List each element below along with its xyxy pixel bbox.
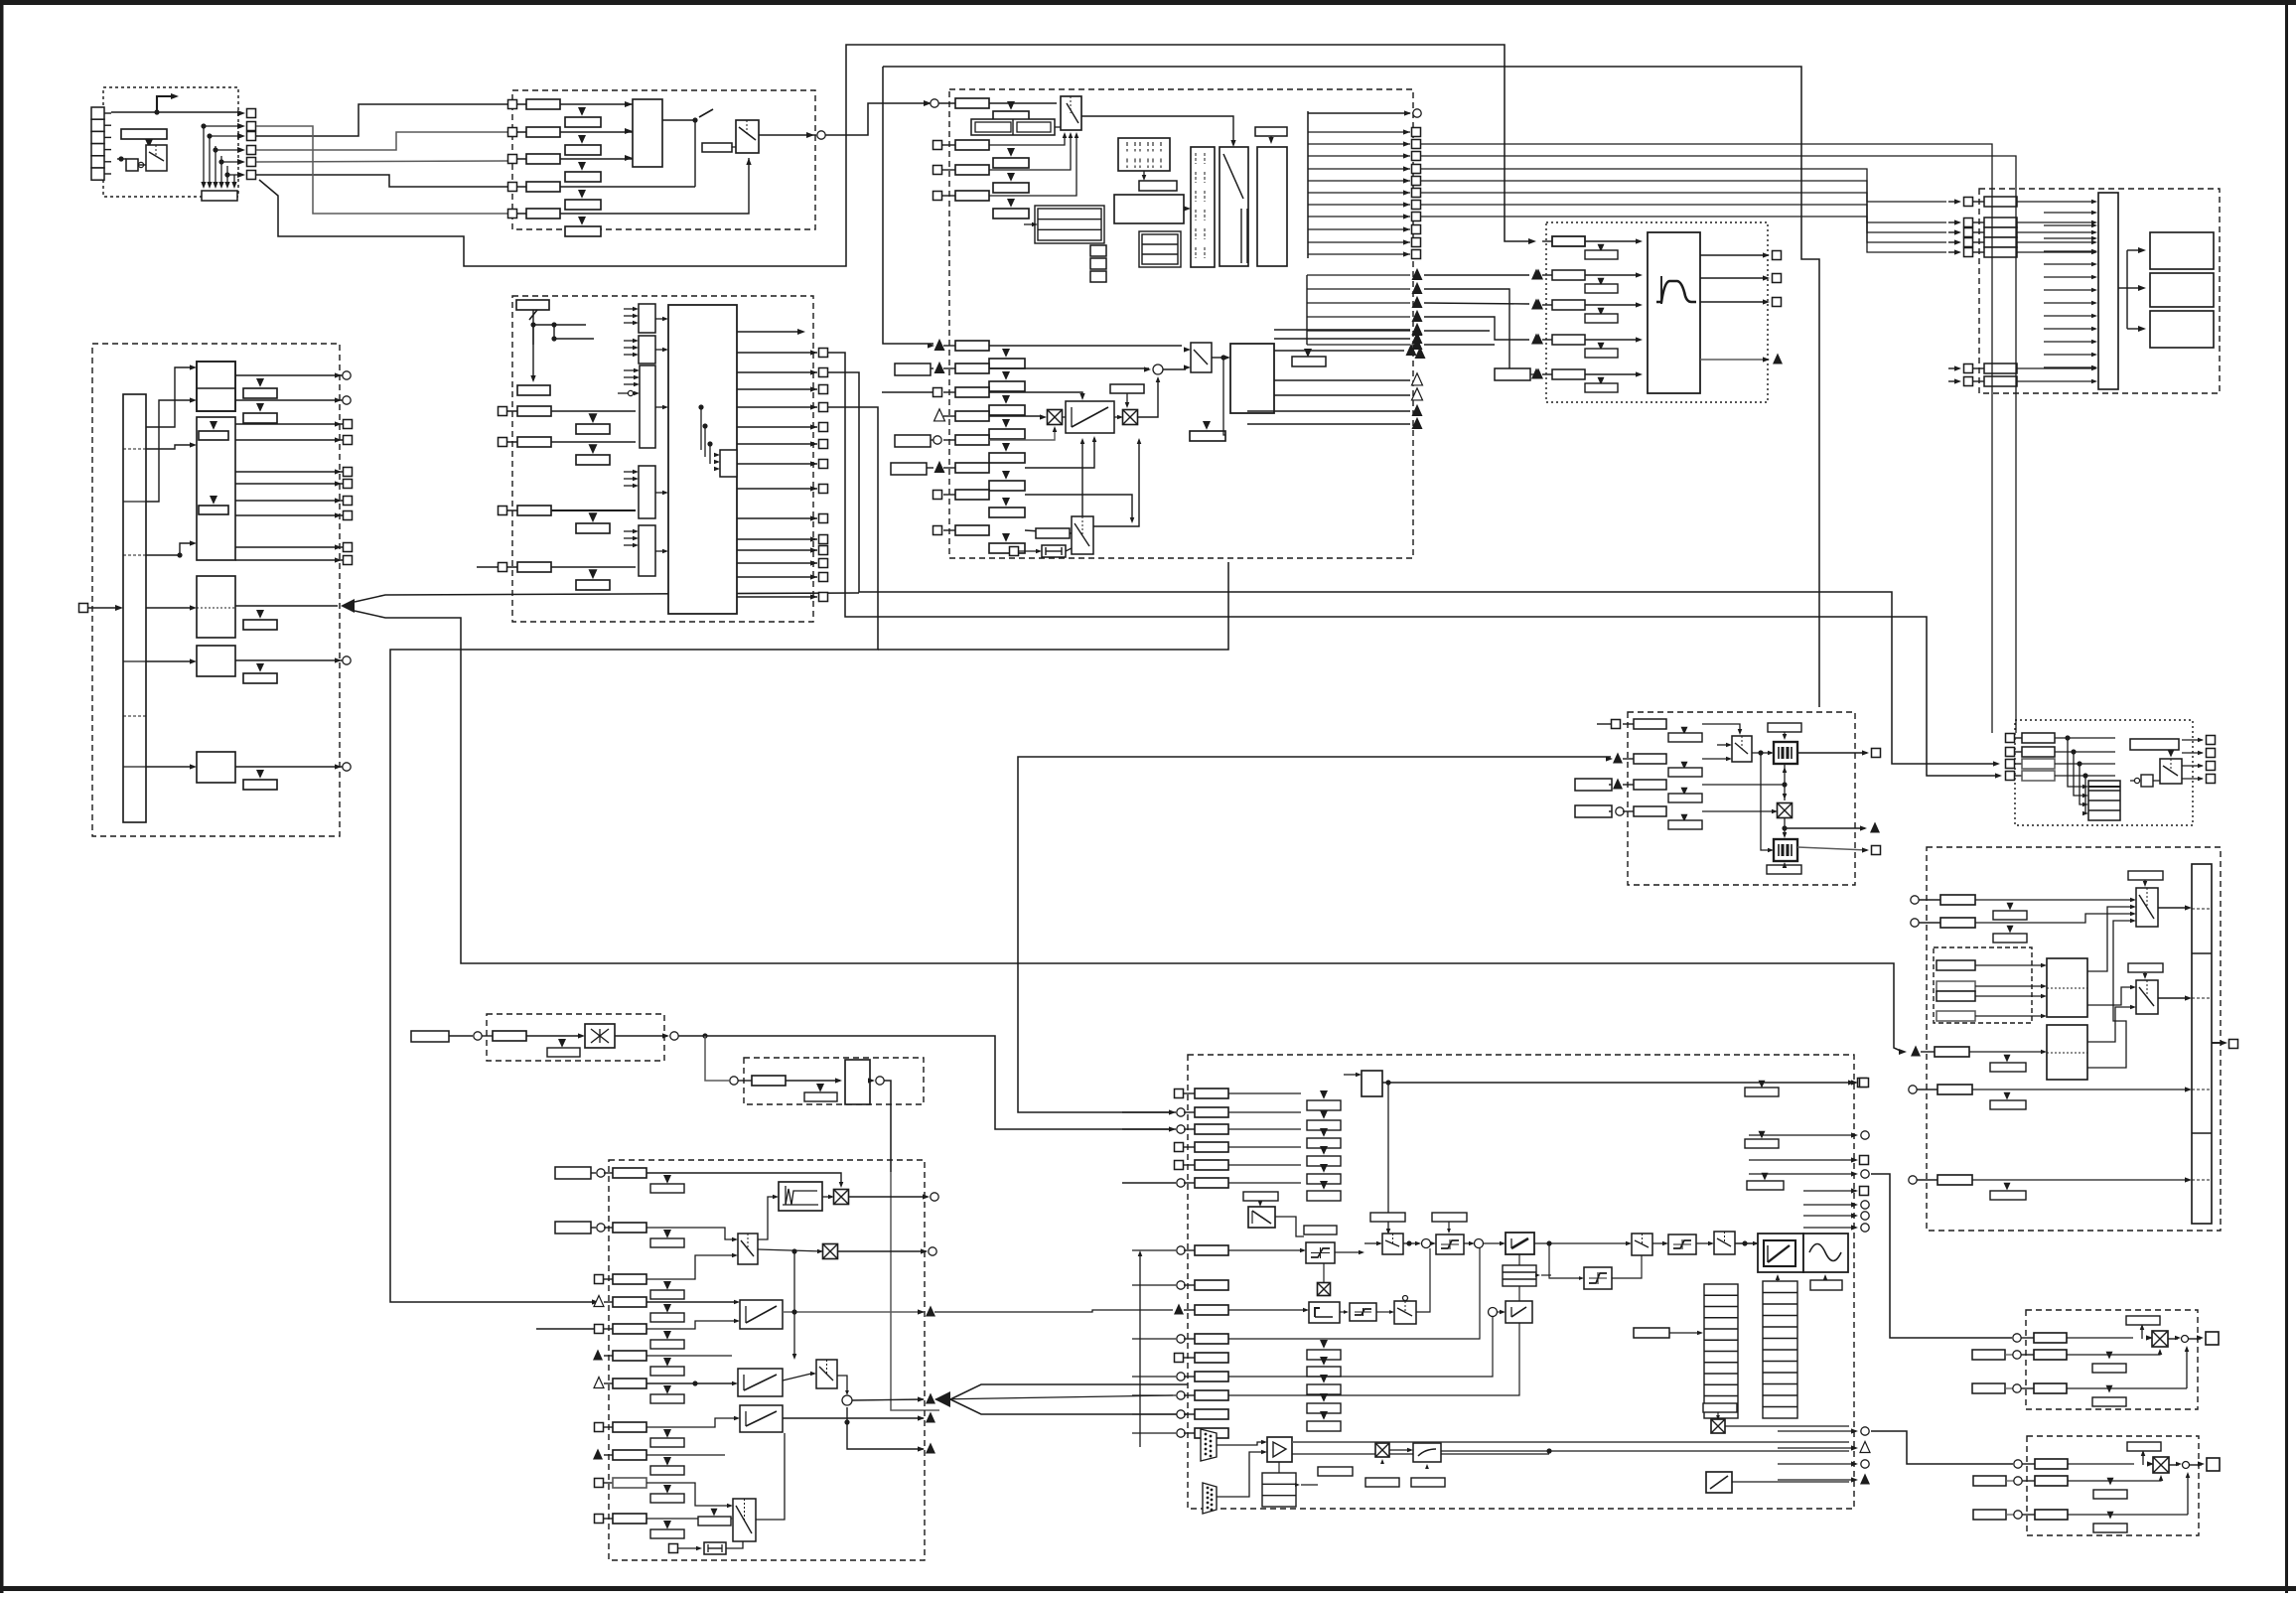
block E	[197, 752, 235, 783]
status output square	[1308, 180, 1410, 182]
ramp vertical block	[845, 1060, 870, 1104]
param below exp	[1411, 1478, 1445, 1487]
multiplier X2	[1123, 410, 1138, 425]
arrow up into ramp	[1777, 1276, 1779, 1283]
wire M3a out to selector top	[1081, 116, 1233, 142]
sum c1	[1422, 1239, 1431, 1248]
wire	[146, 766, 192, 768]
block A two-cell	[197, 362, 235, 411]
group box: reference source select	[2015, 720, 2193, 825]
tall driver block	[1257, 147, 1287, 266]
parameter box row1	[526, 99, 560, 109]
wire merge line from right	[355, 593, 859, 602]
controller output y1236	[1851, 1225, 1858, 1230]
wire to filter box row3	[1424, 303, 1529, 304]
wire mux up	[1081, 441, 1083, 516]
wire row y443 to X1	[989, 428, 1055, 440]
stack param	[1320, 1164, 1328, 1173]
controller input 1	[1175, 1090, 1184, 1098]
wire B2 output to B3 input	[825, 103, 930, 135]
M1 out	[2158, 907, 2187, 909]
tall gain table right	[1763, 1281, 1797, 1418]
switch block	[1191, 343, 1212, 372]
stub arrow	[2044, 250, 2093, 252]
wire row3	[646, 1255, 733, 1279]
arrow into comm table	[1301, 1484, 1318, 1486]
selector input arrow	[624, 315, 634, 317]
stub arrow	[2044, 302, 2093, 304]
S3 out	[1464, 1242, 1472, 1244]
selector input arrow	[624, 478, 634, 480]
row1	[1911, 896, 1919, 904]
block B output square	[235, 559, 343, 561]
ramp row 10	[595, 1479, 604, 1488]
monitor input 3	[1954, 229, 1961, 234]
output square	[737, 549, 817, 551]
wire F1 to M1	[2087, 907, 2131, 971]
wire	[146, 400, 192, 502]
selector input arrow	[624, 471, 634, 473]
wire P1 to muxB	[1534, 1242, 1627, 1244]
param above muxA	[1370, 1213, 1405, 1222]
top output arrow	[737, 331, 800, 333]
monitor block 1	[2150, 232, 2214, 269]
vertical link	[1784, 764, 1786, 800]
selector input arrow	[624, 376, 635, 378]
slider input sq	[1010, 547, 1019, 556]
wires B3 status to B5	[1421, 169, 1946, 202]
triangle sub	[1007, 148, 1015, 157]
inner aux block	[720, 450, 737, 477]
wire F2 to M2	[2087, 1007, 2131, 1042]
mux M	[1394, 1301, 1416, 1324]
latch1 out	[1797, 752, 1867, 754]
mux M3a	[1061, 96, 1081, 130]
wire row y471 to ramp bottom	[1025, 438, 1094, 468]
right output y427	[1247, 423, 1410, 425]
wire row2	[646, 1228, 733, 1239]
select output	[2182, 778, 2203, 780]
xbox 2	[823, 1244, 838, 1259]
top mini block	[1362, 1071, 1382, 1096]
stack param low	[1320, 1357, 1328, 1366]
comm table	[1262, 1473, 1296, 1507]
input square	[79, 604, 88, 613]
triangle sub	[1007, 173, 1015, 182]
wire row y498 to bottom mux	[1025, 495, 1132, 520]
triangle and sub parameter row2	[578, 135, 586, 144]
controller output y1182	[1851, 1171, 1858, 1176]
jog block curve	[779, 1182, 822, 1211]
param right of table	[1318, 1467, 1353, 1476]
tall hatched selector	[1191, 147, 1215, 267]
double arrow	[2146, 1335, 2153, 1340]
group box: analog output 1	[2026, 1310, 2198, 1409]
right output y398	[1274, 394, 1410, 396]
output squares of DI group	[237, 110, 245, 116]
parameter tri left	[1203, 421, 1211, 430]
group box: analog output 2	[2027, 1436, 2199, 1535]
start interlock arrow	[157, 96, 171, 112]
wire S4	[1549, 1243, 1579, 1278]
wire from output4 trunk to bottom-left	[390, 407, 878, 1302]
mini-selector m4	[639, 466, 655, 518]
group box: digital inputs	[103, 87, 238, 197]
latch 2	[1774, 839, 1797, 861]
selector input arrow	[624, 347, 634, 349]
arrow into big selector	[655, 550, 663, 552]
selector	[2160, 759, 2182, 784]
controller output y1458	[1851, 1445, 1858, 1450]
priority table	[2088, 781, 2120, 820]
parameter box	[955, 191, 989, 201]
not gate	[2134, 778, 2139, 783]
block D output	[235, 659, 343, 661]
stub arrow	[2044, 289, 2093, 291]
mux 3	[733, 1499, 756, 1541]
wire dot drop	[1223, 358, 1225, 435]
output square	[737, 426, 817, 428]
block F1	[2047, 958, 2087, 1017]
controller low input 6	[1177, 1373, 1185, 1380]
wide dual parameter box	[971, 119, 1055, 135]
input circle row1	[931, 99, 938, 107]
wire DB9A	[1217, 1442, 1262, 1445]
mini-selector m2	[639, 336, 655, 363]
ao out square	[2206, 1332, 2219, 1345]
wire row y419 to multiplier	[989, 415, 1042, 417]
ao row1 circle	[2013, 1334, 2021, 1342]
param	[493, 1031, 526, 1041]
limit row y371	[895, 363, 931, 375]
monitor block 2	[2150, 273, 2214, 307]
muxM out	[1416, 1248, 1430, 1312]
negated input	[628, 390, 633, 395]
state table right	[1139, 231, 1181, 267]
X box mid	[1318, 1283, 1331, 1296]
fan output triangle	[1307, 302, 1410, 304]
wire long horizontal mid	[878, 562, 1228, 650]
parameter above X2	[1110, 384, 1144, 393]
wire	[111, 111, 240, 113]
filter output triangle	[1700, 359, 1768, 361]
merge chevron	[934, 1391, 950, 1407]
output square	[737, 443, 817, 445]
filter outputs	[1700, 254, 1768, 256]
long trunk wire DI6 feedback loop	[259, 45, 1531, 266]
mux output wire to circle	[759, 134, 816, 136]
integrator I1	[1309, 1302, 1340, 1323]
ramp row 5	[595, 1325, 604, 1334]
potentiometer row 1	[1612, 720, 1621, 729]
pot selector	[1732, 736, 1752, 762]
out circle 2	[838, 1250, 927, 1252]
param above X	[2126, 1316, 2160, 1325]
sat S4	[1584, 1267, 1612, 1289]
logic block	[1114, 195, 1184, 223]
wire row y534	[1025, 530, 1072, 533]
wire tap2	[551, 336, 556, 341]
wire DI5 to row3	[256, 161, 507, 162]
selector input arrow	[624, 308, 634, 310]
controller low input 1	[1177, 1246, 1185, 1254]
block C output	[235, 605, 338, 607]
jog out circle	[849, 1196, 927, 1198]
ramp row 7	[594, 1378, 604, 1388]
selector switch	[146, 145, 167, 171]
block C limit	[197, 576, 235, 638]
arrow into big selector	[655, 406, 663, 408]
stub arrow	[2044, 263, 2093, 265]
block B output square	[235, 483, 343, 485]
PI block P2	[1506, 1301, 1532, 1323]
sat S3	[1436, 1235, 1464, 1254]
stub arrow	[2044, 341, 2093, 343]
wire sum to switch	[1163, 368, 1186, 370]
bottom mux	[1072, 516, 1093, 554]
stack param low	[1320, 1375, 1328, 1383]
wires B3 status to B9 trunks	[1421, 144, 1992, 733]
stack param	[1320, 1181, 1328, 1190]
monitor input 2	[1954, 219, 1961, 224]
source row 2	[2006, 748, 2015, 757]
parameter box	[121, 129, 167, 139]
wire DI4 to row2	[256, 132, 507, 150]
signal bus vertical register	[123, 394, 146, 822]
output square	[737, 463, 817, 465]
ao row1 circle	[2014, 1460, 2022, 1468]
wire from output2 trunk	[828, 372, 1996, 764]
block B supervision	[197, 417, 235, 560]
block B output square	[235, 423, 343, 425]
ao out	[2168, 1338, 2178, 1340]
wire row1 to xbox	[646, 1173, 841, 1184]
wire	[678, 1036, 1172, 1129]
controller input 2	[1177, 1108, 1185, 1116]
output square	[737, 352, 817, 354]
potentiometer row 4	[1575, 805, 1612, 817]
output bus and fan	[1307, 111, 1309, 258]
mux M2	[2136, 980, 2158, 1014]
input square row1	[508, 100, 517, 109]
ao row3	[1972, 1383, 2005, 1393]
sum c3	[1489, 1308, 1498, 1317]
second fan filled outputs	[1306, 275, 1308, 345]
mux 1	[738, 1234, 758, 1264]
wire mux2 to sum	[837, 1376, 847, 1393]
ao out square	[2207, 1458, 2220, 1471]
mux B	[1632, 1234, 1652, 1255]
X box comm	[1375, 1443, 1389, 1457]
limit row y471	[891, 463, 927, 475]
PI block P1	[1506, 1233, 1534, 1254]
parameter box	[955, 165, 989, 175]
wire down	[884, 1081, 891, 1172]
arrow into big selector	[655, 492, 663, 494]
wire into B7	[477, 566, 498, 568]
ramp row 1	[555, 1167, 591, 1179]
xbox jog	[834, 1190, 849, 1205]
block B output square	[235, 546, 343, 548]
out	[615, 1035, 667, 1037]
stack wires	[1228, 1092, 1301, 1094]
wire	[146, 367, 192, 427]
hatched fault grid	[1118, 138, 1170, 171]
group box: ramp mini	[744, 1058, 924, 1104]
output square	[737, 596, 817, 598]
tall gain table left	[1704, 1284, 1738, 1418]
filter block	[1648, 232, 1700, 393]
tri sub	[816, 1084, 824, 1092]
stub arrow	[2044, 212, 2093, 214]
arrow into big selector	[655, 318, 663, 320]
ramp row 11	[595, 1515, 604, 1524]
wire down2	[891, 1172, 939, 1410]
top out wire	[1382, 1082, 1849, 1084]
double arrow	[2147, 1461, 2154, 1466]
triangle and sub parameter row1	[578, 107, 586, 116]
selector to blocks	[2118, 287, 2127, 289]
trunk x1025 to PID and controller	[1018, 757, 1611, 1112]
output square	[737, 371, 817, 373]
sum circle	[1153, 364, 1163, 374]
wire drop to mux2	[793, 1251, 795, 1357]
right output y332	[1274, 329, 1410, 331]
controller output y1441	[1851, 1428, 1858, 1433]
fan output triangle	[1307, 330, 1410, 332]
stub arrow	[2044, 315, 2093, 317]
parameter box row4	[526, 182, 560, 192]
selector block	[633, 99, 662, 167]
mux M1	[2136, 888, 2158, 927]
stub arrow	[2044, 366, 2093, 368]
multiplier X1	[1048, 410, 1063, 425]
sum out	[1431, 1242, 1432, 1244]
controller low input 2	[1177, 1281, 1185, 1289]
output mux switch	[736, 120, 759, 153]
input square row3	[933, 166, 942, 175]
latch2 out	[1797, 847, 1867, 850]
wire to filter row5	[1424, 289, 1529, 374]
selector input arrow	[624, 354, 634, 356]
parameter right	[1292, 357, 1326, 366]
sum c2	[1475, 1239, 1484, 1248]
parameter box at switch	[702, 143, 732, 152]
ramp row 3	[595, 1275, 604, 1284]
tri marker	[2168, 750, 2175, 758]
controller output y1224	[1851, 1213, 1858, 1218]
param above muxC	[1745, 1088, 1779, 1096]
param	[752, 1076, 786, 1086]
mux 2	[816, 1360, 837, 1388]
slider block	[1042, 545, 1066, 557]
controller low input 7	[1177, 1391, 1185, 1399]
monitor block 3	[2150, 311, 2214, 348]
right output y414	[1247, 410, 1410, 412]
status output square	[1308, 192, 1410, 194]
ao row3	[1973, 1510, 2006, 1520]
filter row 2	[1533, 269, 1543, 280]
limit row y419	[934, 409, 945, 421]
input row 1	[499, 407, 507, 416]
stack param	[1320, 1090, 1328, 1099]
stack param low	[1320, 1340, 1328, 1349]
triangle sub row1	[1007, 101, 1015, 110]
parameter box	[955, 140, 989, 150]
low out	[847, 1407, 924, 1449]
controller input 3	[1177, 1125, 1185, 1133]
mux A	[1382, 1234, 1403, 1254]
status output square	[1308, 241, 1410, 243]
filter row 1	[1542, 240, 1552, 242]
wire row6	[646, 1355, 732, 1357]
stack param	[1320, 1110, 1328, 1119]
wire rows to M3a bottom	[989, 135, 1065, 145]
output square	[737, 488, 817, 490]
group box: speed ref chain	[1927, 847, 2221, 1231]
wire row y348	[989, 345, 1182, 347]
fan output triangle	[1307, 274, 1410, 276]
wire row y395 to ramp top	[989, 392, 1082, 396]
mini cell column	[1090, 245, 1106, 256]
group box: PID / motor potentiometer	[1628, 712, 1855, 885]
block F2	[2047, 1025, 2087, 1080]
circle row mid	[1909, 1086, 1917, 1093]
group box: reference handling	[512, 296, 813, 622]
stub arrow	[2044, 276, 2093, 278]
limit row y534	[933, 526, 942, 535]
dot	[1782, 782, 1787, 787]
controller input 6	[1177, 1179, 1185, 1187]
right output y341	[1274, 338, 1410, 340]
wire row5 to mux bottom	[747, 158, 749, 214]
wire row9	[646, 1454, 725, 1456]
fan output triangle	[1307, 316, 1410, 318]
group box: start/stop control logic	[949, 89, 1413, 558]
ramp row 8	[595, 1423, 604, 1432]
gray bus wires	[1292, 1441, 1849, 1443]
input square row4	[933, 192, 942, 201]
X box right	[1711, 1419, 1725, 1433]
controller output y1143	[1851, 1132, 1858, 1137]
input square row4	[508, 183, 517, 192]
controller output y1168	[1851, 1157, 1858, 1162]
ramp row 4	[594, 1296, 604, 1307]
sum out	[852, 1399, 924, 1400]
trunk wire top distribution	[883, 67, 1819, 707]
param above NB	[1243, 1192, 1278, 1201]
M2 out	[2158, 997, 2187, 999]
block B output square	[235, 500, 343, 502]
parameter box top	[516, 300, 549, 310]
ao param1	[2035, 1459, 2068, 1469]
arrow	[1184, 208, 1188, 210]
wires low rows right	[1228, 1248, 1480, 1339]
triangle and sub parameter row5	[578, 217, 586, 225]
mux C	[1714, 1232, 1735, 1254]
controller low input 5	[1175, 1354, 1184, 1363]
param above X	[2127, 1442, 2161, 1451]
DB9 connector A	[1201, 1429, 1217, 1461]
S4 out	[1612, 1255, 1642, 1278]
input square row5	[508, 210, 517, 218]
wire	[146, 660, 192, 662]
free param	[411, 1031, 449, 1042]
S1 out	[1335, 1251, 1361, 1253]
wire DI3 to constant-speed box row1	[256, 104, 507, 136]
status output square	[1308, 204, 1410, 206]
wire DB9B	[1217, 1452, 1262, 1497]
